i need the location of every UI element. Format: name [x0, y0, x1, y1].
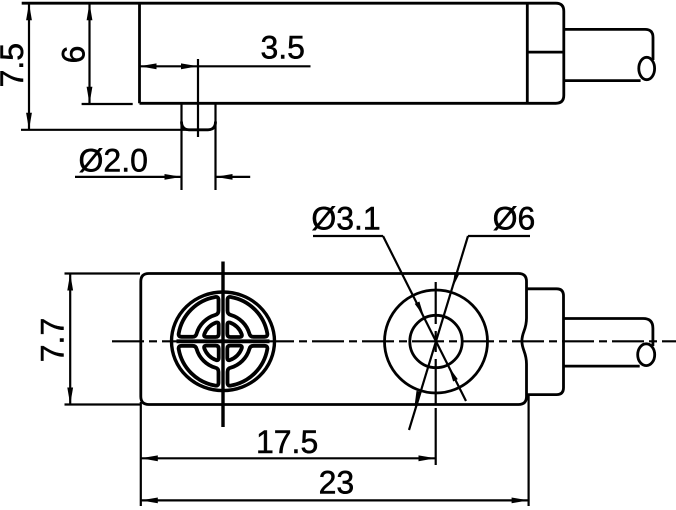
side view: nub centerline	[197, 59, 199, 137]
label Ø6: lower arrow	[415, 391, 422, 407]
top view: body outline with wavy right edge	[141, 274, 527, 405]
svg-text:6: 6	[56, 46, 92, 64]
grille: outer wedge bottom-right	[228, 346, 268, 386]
grille: inner wedge top-left	[204, 322, 219, 337]
top view: cable outline	[564, 319, 653, 367]
dimension 7.5: dimension line	[28, 3, 30, 130]
grille: outer wedge top-left	[179, 297, 219, 337]
svg-text:Ø2.0: Ø2.0	[79, 143, 148, 179]
svg-text:17.5: 17.5	[256, 424, 318, 460]
grille: inner wedge top-right	[227, 322, 242, 337]
label Ø3.1: underline	[313, 235, 383, 237]
label Ø3.1: lower arrow	[449, 367, 458, 382]
top view: main horizontal centerline	[112, 340, 676, 342]
dimension 7.7: top arrow	[67, 274, 73, 291]
grille: outer circle	[172, 292, 275, 391]
dimension 3.5: left arrow	[140, 63, 157, 69]
label Ø6: leader line	[409, 236, 468, 430]
grille: outer wedge top-right	[228, 297, 268, 337]
side view: cable end ellipse	[639, 57, 655, 79]
hole: outer circle Ø6	[385, 290, 488, 393]
label Ø3.1: leader line	[383, 236, 466, 401]
side view: nub rounded bottom	[182, 122, 216, 130]
side view: cable outline	[564, 29, 653, 80]
dimension 23: dimension line	[141, 499, 529, 501]
hole: inner circle Ø3.1	[410, 315, 462, 367]
dimension Ø2.0: left dimension line	[75, 176, 182, 178]
grille: inner wedge bottom-right	[227, 346, 242, 361]
dimension 3.5: right arrow	[181, 63, 198, 69]
dimension 3.5: dimension line	[140, 65, 311, 67]
hole: vertical center mark segments	[435, 282, 437, 465]
dimension 17.5: dimension line	[141, 457, 436, 459]
side view: sensing nub walls (also Ø2.0 extension lines)	[182, 103, 216, 190]
grille: outer wedge bottom-left	[179, 346, 219, 386]
svg-text:7.7: 7.7	[35, 318, 71, 362]
dimension 7.5: bottom arrow	[26, 113, 32, 130]
dimension 7.5: top arrow	[26, 3, 32, 20]
dimension 6: bottom extension line	[82, 103, 133, 105]
dimension 7.7: bottom extension line	[65, 403, 141, 405]
dimension 17.5: left extension line (body left edge extended)	[140, 402, 142, 506]
svg-text:Ø6: Ø6	[493, 201, 536, 237]
dimension 7.7: top extension line	[65, 272, 141, 274]
label Ø6: upper arrow	[453, 272, 460, 288]
dimension 6: top arrow	[87, 3, 93, 20]
dimension 17.5: left arrow	[141, 455, 158, 461]
dimension Ø2.0: right arrow	[216, 174, 233, 180]
dimension Ø2.0: left arrow	[165, 174, 182, 180]
top view: cable end ellipse	[638, 344, 655, 366]
dimension 7.7: dimension line	[69, 274, 71, 405]
svg-text:3.5: 3.5	[260, 30, 304, 66]
side view: cap inner edge line	[526, 3, 529, 103]
dimension 7.5: bottom extension line (nub bottom tangent)	[21, 129, 210, 131]
dimension 23: right arrow	[512, 498, 529, 504]
dimension 6: bottom arrow	[87, 87, 93, 104]
label Ø3.1: upper arrow	[415, 301, 424, 316]
grille: inner wedge bottom-left	[204, 346, 219, 361]
side view: cap parting line	[527, 51, 564, 54]
svg-text:7.5: 7.5	[0, 43, 30, 87]
top view: strain relief block	[527, 289, 564, 395]
label Ø6: underline	[468, 235, 530, 237]
dimension Ø2.0: right dimension line	[216, 176, 251, 178]
dimension 7.7: bottom arrow	[67, 388, 73, 405]
grille: vertical centerline	[221, 262, 224, 428]
dimension 17.5: right arrow	[419, 455, 436, 461]
grille: horizontal crossbar	[177, 339, 270, 343]
svg-text:Ø3.1: Ø3.1	[311, 201, 380, 237]
dimension 6: dimension line	[88, 3, 90, 104]
dimension 23: left arrow	[141, 498, 158, 504]
svg-text:23: 23	[319, 465, 355, 501]
side view: body outline with end cap	[22, 3, 564, 103]
dimension 23: right extension line	[527, 396, 529, 506]
